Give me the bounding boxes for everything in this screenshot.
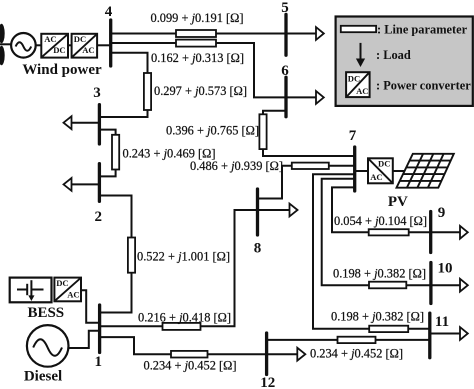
svg-text:0.522 + j1.001 [Ω]: 0.522 + j1.001 [Ω] (137, 250, 230, 264)
wire converter to bus 4 (97, 44, 111, 46)
diesel generator G2 (AC source circle) (27, 325, 69, 367)
svg-text:AC: AC (370, 172, 382, 182)
wind turbine rotor blades (0, 24, 11, 66)
power converter AC/DC (wind) (41, 34, 68, 58)
bus 10 (429, 263, 432, 304)
svg-text:0.297 + j0.573 [Ω]: 0.297 + j0.573 [Ω] (154, 84, 247, 98)
svg-text:DC: DC (378, 159, 390, 169)
load arrow at bus 9 (431, 226, 468, 239)
wire bus12 to line box (267, 339, 338, 341)
line parameter box bus1-bus12 (171, 351, 208, 358)
wire AC/DC to DC/AC converter (68, 44, 72, 46)
bus 5 (284, 14, 287, 55)
bus 7 (353, 147, 356, 191)
legend power converter symbol DC/AC (346, 72, 370, 97)
power converter DC/AC (wind) (72, 34, 98, 58)
svg-text:0.234 + j0.452 [Ω]: 0.234 + j0.452 [Ω] (144, 359, 237, 373)
line parameter box bus4-bus3 (vertical) (144, 73, 151, 110)
wire bus7 to bus9 (332, 187, 369, 232)
svg-text:AC: AC (82, 45, 94, 55)
svg-text:5: 5 (281, 0, 289, 16)
svg-text:DC: DC (74, 34, 86, 44)
wire BESS converter to bus 1 (81, 290, 100, 322)
svg-text:AC: AC (44, 34, 56, 44)
svg-text:9: 9 (438, 205, 446, 221)
legend line parameter symbol (341, 26, 376, 32)
wire generator to AC/DC converter (36, 44, 42, 46)
wire diesel to bus 1 (68, 331, 99, 348)
svg-text:1: 1 (95, 354, 103, 370)
wire bus4 down to line box (111, 53, 148, 73)
legend frame (336, 17, 473, 106)
load arrow at bus 11 (430, 327, 468, 340)
svg-text:: Load: : Load (376, 48, 411, 62)
svg-text:0.162 + j0.313 [Ω]: 0.162 + j0.313 [Ω] (151, 51, 244, 65)
wire converter to PV panel (393, 170, 404, 172)
svg-text:6: 6 (281, 63, 289, 79)
line parameter box bus7-bus9 (369, 229, 409, 235)
load arrow at bus 2 (64, 178, 100, 191)
svg-text:BESS: BESS (27, 305, 64, 321)
wire bus7 to PV converter (355, 170, 368, 172)
svg-text:7: 7 (349, 128, 357, 144)
bus 9 (429, 212, 432, 253)
bus 4 (109, 20, 112, 66)
wire line box to bus 7 (263, 149, 355, 156)
wire bus7 to bus11 (313, 174, 369, 329)
svg-text:Diesel: Diesel (24, 369, 62, 385)
svg-text:11: 11 (435, 314, 449, 330)
line parameter box bus4-bus6 (176, 40, 216, 47)
svg-text:DC: DC (348, 74, 360, 84)
svg-text:AC: AC (356, 86, 368, 96)
wind generator G1 (AC source circle) (11, 33, 36, 58)
bus 6 (284, 77, 287, 116)
svg-text:0.216 + j0.418 [Ω]: 0.216 + j0.418 [Ω] (138, 311, 231, 325)
wire line box to bus 11 (376, 339, 430, 341)
load arrow at bus 12 (267, 348, 306, 361)
svg-text:12: 12 (260, 375, 275, 389)
svg-text:8: 8 (254, 241, 262, 257)
wire line box to bus 1 (100, 273, 132, 313)
svg-text:Wind power: Wind power (22, 62, 102, 78)
bus 12 (265, 333, 268, 375)
wire line box to bus 2 (99, 170, 115, 177)
line parameter box bus12-bus11 (338, 337, 376, 343)
svg-text:3: 3 (93, 85, 101, 101)
svg-text:: Line parameter: : Line parameter (377, 23, 468, 37)
load arrow at bus 5 (286, 27, 324, 40)
svg-text:0.198 + j0.382 [Ω]: 0.198 + j0.382 [Ω] (333, 267, 426, 281)
load arrow at bus 6 (286, 91, 324, 104)
line parameter box bus7-bus11 (369, 326, 408, 332)
svg-text:DC: DC (53, 45, 65, 55)
svg-text:AC: AC (67, 289, 79, 299)
wire bus1 to bus12 (100, 337, 267, 354)
wire bus2 down to line box (99, 196, 131, 238)
wire line box to bus 3 (99, 110, 147, 117)
svg-text:0.054 + j0.104 [Ω]: 0.054 + j0.104 [Ω] (334, 214, 427, 228)
svg-text:0.396 + j0.765 [Ω]: 0.396 + j0.765 [Ω] (166, 124, 259, 138)
wire bus3 down to line box (99, 130, 115, 135)
svg-text:0.486 + j0.939 [Ω]: 0.486 + j0.939 [Ω] (190, 159, 283, 173)
svg-text:DC: DC (56, 278, 68, 288)
wire bus4 to bus6 (111, 43, 286, 97)
svg-text:0.198 + j0.382 [Ω]: 0.198 + j0.382 [Ω] (331, 310, 424, 324)
wire line box to bus 9 (409, 231, 431, 233)
line parameter box bus2-bus1 (vertical) (128, 238, 135, 273)
svg-text:2: 2 (95, 209, 103, 225)
line parameter box bus6-bus7 (vertical) (259, 114, 266, 149)
svg-text:10: 10 (438, 261, 453, 277)
svg-text:0.234 + j0.452 [Ω]: 0.234 + j0.452 [Ω] (310, 347, 403, 361)
power converter DC/AC (PV) (368, 158, 393, 183)
BESS battery unit (10, 278, 52, 303)
load arrow at bus 10 (431, 279, 468, 292)
wire line box to bus 10 (406, 284, 431, 286)
bus 11 (428, 313, 431, 358)
wire bus4 to bus5 (111, 33, 286, 35)
wire bus6 down to line box (263, 111, 286, 115)
line parameter box bus1-bus8 (163, 323, 201, 330)
svg-text:PV: PV (388, 194, 408, 210)
wire bus7 to bus10 (322, 179, 369, 285)
line parameter box bus8-bus7 (292, 163, 329, 169)
PV solar panel array (397, 154, 454, 188)
svg-text:4: 4 (105, 4, 113, 20)
bus 3 (98, 105, 101, 144)
line parameter box bus3-bus2 (vertical) (112, 135, 119, 170)
wire line box to bus 11 (408, 328, 430, 330)
line parameter box bus7-bus10 (369, 282, 406, 289)
line parameter box bus4-bus5 (176, 30, 216, 37)
svg-text:0.099 + j0.191 [Ω]: 0.099 + j0.191 [Ω] (151, 11, 244, 25)
wire bus1 to bus8 (100, 210, 290, 326)
bus 2 (98, 164, 101, 202)
power converter DC/AC (BESS) (54, 278, 81, 302)
wire bus8 to bus7 (258, 166, 355, 199)
load arrow at bus 8 (290, 204, 298, 217)
svg-text:: Power converter: : Power converter (376, 79, 471, 93)
bus 1 (98, 305, 101, 353)
load arrow at bus 3 (64, 116, 100, 129)
legend load arrow symbol (356, 43, 365, 67)
bus 8 (256, 189, 259, 235)
